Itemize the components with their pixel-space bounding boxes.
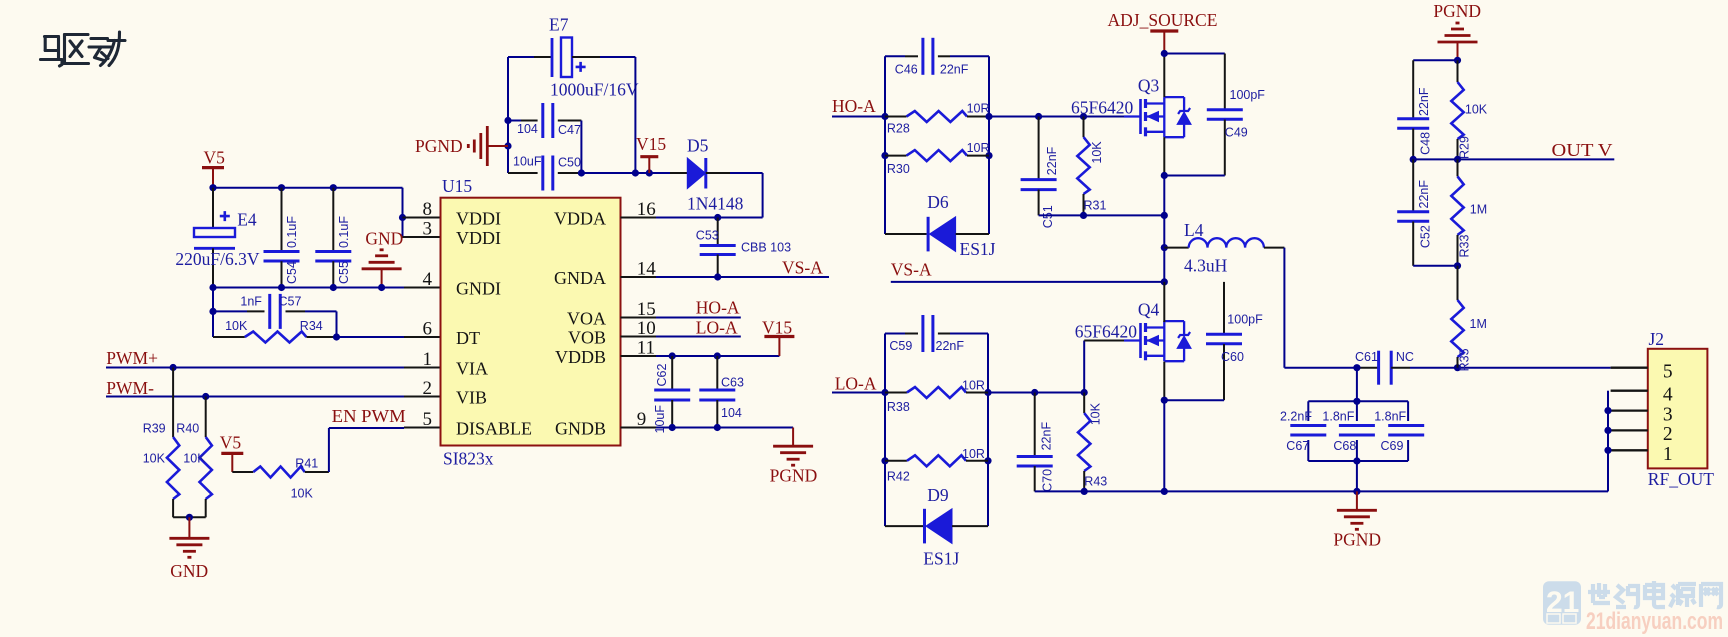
svg-text:2: 2 [1663, 424, 1673, 445]
svg-text:VDDB: VDDB [555, 347, 606, 367]
svg-text:21dianyuan.com: 21dianyuan.com [1586, 608, 1723, 635]
svg-text:V15: V15 [762, 318, 792, 338]
svg-text:PWM+: PWM+ [106, 348, 158, 368]
svg-text:R42: R42 [887, 470, 910, 484]
svg-text:DT: DT [456, 328, 480, 348]
svg-text:VS-A: VS-A [782, 258, 823, 278]
svg-text:Q3: Q3 [1138, 76, 1160, 96]
svg-text:C69: C69 [1381, 439, 1404, 453]
svg-text:C60: C60 [1221, 350, 1244, 364]
svg-text:10K: 10K [143, 452, 166, 466]
svg-text:10K: 10K [1089, 402, 1103, 425]
svg-text:C53: C53 [696, 229, 719, 243]
svg-text:C68: C68 [1333, 439, 1356, 453]
svg-text:22nF: 22nF [1417, 87, 1431, 116]
svg-text:100pF: 100pF [1230, 88, 1266, 102]
svg-text:10K: 10K [183, 452, 206, 466]
svg-text:104: 104 [517, 122, 538, 136]
svg-text:10K: 10K [1090, 141, 1104, 164]
svg-text:DISABLE: DISABLE [456, 419, 532, 439]
svg-text:GND: GND [365, 228, 403, 248]
svg-text:22nF: 22nF [936, 339, 965, 353]
svg-text:ADJ_SOURCE: ADJ_SOURCE [1108, 10, 1218, 30]
svg-text:D6: D6 [927, 192, 949, 212]
svg-text:2.2nF: 2.2nF [1280, 409, 1312, 423]
svg-text:3: 3 [423, 218, 433, 239]
svg-text:8: 8 [423, 199, 433, 220]
svg-text:V5: V5 [204, 148, 226, 168]
svg-text:C48: C48 [1419, 132, 1433, 155]
svg-text:EN PWM: EN PWM [332, 406, 406, 426]
svg-text:22nF: 22nF [1040, 422, 1054, 451]
svg-text:C70: C70 [1041, 469, 1055, 492]
svg-text:10R: 10R [962, 447, 985, 461]
svg-text:C67: C67 [1286, 439, 1309, 453]
svg-text:1000uF/16V: 1000uF/16V [550, 80, 639, 100]
svg-text:1M: 1M [1470, 317, 1487, 331]
svg-text:C50: C50 [558, 156, 581, 170]
svg-text:V15: V15 [636, 134, 666, 154]
svg-text:R30: R30 [887, 162, 910, 176]
svg-text:65F6420: 65F6420 [1075, 322, 1137, 342]
svg-text:1.8nF: 1.8nF [1374, 409, 1406, 423]
svg-text:C55: C55 [337, 261, 351, 284]
svg-text:R43: R43 [1084, 475, 1107, 489]
svg-text:GND: GND [170, 561, 208, 581]
svg-text:Q4: Q4 [1138, 300, 1160, 320]
svg-text:R35: R35 [1458, 348, 1472, 371]
svg-text:22nF: 22nF [1417, 180, 1431, 209]
svg-text:LO-A: LO-A [696, 317, 738, 337]
svg-text:10R: 10R [962, 379, 985, 393]
svg-text:4: 4 [1663, 384, 1673, 405]
svg-text:1N4148: 1N4148 [687, 194, 744, 214]
svg-text:ES1J: ES1J [960, 239, 996, 259]
svg-text:R31: R31 [1084, 198, 1107, 212]
svg-text:C63: C63 [721, 376, 744, 390]
svg-text:VDDA: VDDA [554, 209, 606, 229]
svg-text:D5: D5 [687, 136, 709, 156]
svg-text:PGND: PGND [1433, 1, 1481, 21]
svg-text:C49: C49 [1225, 126, 1248, 140]
svg-text:VIA: VIA [456, 359, 488, 379]
svg-text:GNDI: GNDI [456, 279, 501, 299]
svg-text:HO-A: HO-A [832, 96, 876, 116]
svg-text:V5: V5 [220, 433, 242, 453]
svg-text:10K: 10K [1465, 103, 1488, 117]
svg-text:10R: 10R [967, 102, 990, 116]
svg-text:R38: R38 [887, 400, 910, 414]
svg-text:R34: R34 [300, 319, 323, 333]
svg-text:NC: NC [1396, 350, 1414, 364]
svg-text:ES1J: ES1J [923, 549, 959, 569]
svg-text:E7: E7 [549, 15, 569, 35]
svg-text:C54: C54 [285, 261, 299, 284]
svg-text:SI823x: SI823x [443, 449, 494, 469]
svg-text:VOB: VOB [568, 328, 606, 348]
svg-text:10K: 10K [291, 487, 314, 501]
svg-text:R29: R29 [1458, 136, 1472, 159]
svg-text:10R: 10R [967, 141, 990, 155]
svg-text:D9: D9 [927, 485, 949, 505]
svg-text:E4: E4 [237, 210, 257, 230]
svg-text:C62: C62 [655, 364, 669, 387]
svg-text:0.1uF: 0.1uF [285, 216, 299, 248]
svg-text:VIB: VIB [456, 388, 487, 408]
svg-text:22nF: 22nF [940, 63, 969, 77]
svg-text:10K: 10K [225, 319, 248, 333]
svg-text:GNDA: GNDA [554, 268, 606, 288]
svg-text:22nF: 22nF [1045, 146, 1059, 175]
svg-text:VOA: VOA [567, 309, 606, 329]
svg-text:C52: C52 [1419, 225, 1433, 248]
svg-text:220uF/6.3V: 220uF/6.3V [175, 249, 259, 269]
svg-text:C51: C51 [1041, 205, 1055, 228]
svg-text:2: 2 [423, 378, 433, 399]
svg-text:100pF: 100pF [1227, 313, 1263, 327]
svg-text:65F6420: 65F6420 [1071, 98, 1133, 118]
svg-text:1M: 1M [1470, 203, 1487, 217]
svg-text:LO-A: LO-A [835, 374, 877, 394]
svg-text:1.8nF: 1.8nF [1322, 409, 1354, 423]
svg-text:R28: R28 [887, 122, 910, 136]
svg-text:R33: R33 [1458, 235, 1472, 258]
svg-text:U15: U15 [442, 176, 472, 196]
svg-text:R39: R39 [143, 421, 166, 435]
svg-text:OUT V: OUT V [1552, 140, 1613, 160]
svg-text:C46: C46 [895, 63, 918, 77]
svg-text:L4: L4 [1184, 220, 1204, 240]
svg-text:RF_OUT: RF_OUT [1648, 469, 1714, 489]
svg-text:VDDI: VDDI [456, 228, 501, 248]
svg-text:VS-A: VS-A [891, 260, 932, 280]
svg-text:C47: C47 [558, 123, 581, 137]
svg-text:1: 1 [423, 349, 433, 370]
svg-text:C59: C59 [889, 339, 912, 353]
svg-text:6: 6 [423, 318, 433, 339]
svg-text:104: 104 [721, 406, 742, 420]
svg-text:10uF: 10uF [653, 405, 667, 434]
svg-text:PGND: PGND [770, 466, 818, 486]
svg-text:5: 5 [1663, 361, 1673, 382]
svg-text:1nF: 1nF [240, 295, 262, 309]
svg-text:PGND: PGND [415, 136, 463, 156]
svg-text:GNDB: GNDB [555, 419, 606, 439]
svg-text:HO-A: HO-A [696, 298, 740, 318]
svg-text:0.1uF: 0.1uF [337, 216, 351, 248]
svg-text:4: 4 [423, 269, 433, 290]
svg-text:4.3uH: 4.3uH [1184, 255, 1228, 275]
svg-text:VDDI: VDDI [456, 209, 501, 229]
svg-text:C61: C61 [1355, 350, 1378, 364]
svg-text:CBB 103: CBB 103 [741, 241, 791, 255]
svg-text:5: 5 [423, 409, 433, 430]
svg-text:R41: R41 [295, 456, 318, 470]
svg-text:C57: C57 [279, 295, 302, 309]
svg-text:J2: J2 [1649, 329, 1665, 349]
svg-text:3: 3 [1663, 404, 1673, 425]
svg-text:PWM-: PWM- [106, 378, 154, 398]
svg-text:R40: R40 [176, 421, 199, 435]
svg-text:1: 1 [1663, 444, 1673, 465]
svg-text:PGND: PGND [1333, 530, 1381, 550]
svg-text:10uF: 10uF [513, 155, 542, 169]
